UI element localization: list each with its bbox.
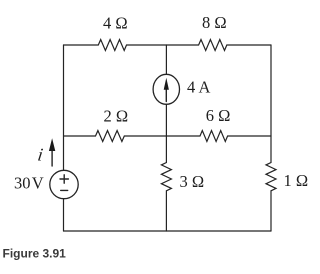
svg-text:8 Ω: 8 Ω (202, 13, 227, 32)
svg-text:4 Ω: 4 Ω (103, 14, 128, 33)
svg-text:2 Ω: 2 Ω (104, 107, 129, 126)
svg-text:30: 30 (14, 174, 31, 193)
svg-text:i: i (36, 145, 44, 165)
svg-text:1 Ω: 1 Ω (284, 171, 309, 190)
svg-text:V: V (32, 174, 44, 193)
svg-text:Figure 3.91: Figure 3.91 (3, 247, 67, 261)
svg-text:6 Ω: 6 Ω (206, 106, 231, 125)
svg-text:4 A: 4 A (187, 78, 210, 97)
svg-text:3 Ω: 3 Ω (180, 172, 205, 191)
